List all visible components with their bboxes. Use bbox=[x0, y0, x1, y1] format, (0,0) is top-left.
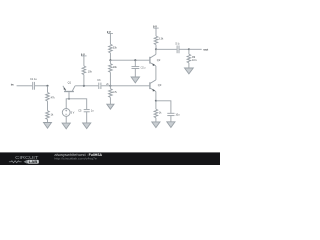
resistor R3 bbox=[82, 66, 92, 75]
wire R5 to node C bbox=[109, 72, 111, 86]
resistor R7 bbox=[154, 36, 164, 45]
wire base node left and down to V1 bbox=[66, 99, 69, 109]
transistor Q3 bbox=[150, 80, 162, 92]
wire C5 to ground bbox=[86, 112, 88, 123]
wire Q3 emitter down bbox=[155, 92, 157, 101]
wire node E down to C2 bbox=[134, 60, 136, 66]
svg-text:10u: 10u bbox=[175, 114, 180, 117]
wire node A down to R1 bbox=[47, 86, 49, 93]
wire Q2 emitter to Q3 collector bbox=[155, 66, 157, 80]
transistor Q2 bbox=[150, 49, 161, 66]
wire node D to Q2 base row bbox=[110, 59, 149, 61]
svg-text:10 k: 10 k bbox=[192, 59, 197, 62]
svg-text:9 V: 9 V bbox=[107, 30, 111, 34]
wire R1 to R2 bbox=[47, 101, 49, 111]
wire flag to R7 bbox=[155, 28, 157, 36]
ground (C4) bbox=[167, 122, 175, 128]
wire node B up to R3 bbox=[83, 75, 85, 86]
resistor R5 bbox=[109, 64, 118, 73]
svg-text:Q2: Q2 bbox=[157, 58, 161, 62]
footer bar bbox=[0, 152, 220, 165]
wire base node right and down to C5 bbox=[69, 99, 87, 109]
wire C6 to node H bbox=[180, 48, 189, 50]
wire C2 to ground bbox=[134, 69, 136, 78]
node F junction bbox=[155, 48, 157, 50]
wire R9 to ground bbox=[188, 63, 190, 68]
svg-text:Q1: Q1 bbox=[68, 80, 72, 84]
node D junction bbox=[109, 59, 111, 61]
wire R3 to flag bbox=[83, 56, 85, 66]
node out label bbox=[203, 47, 208, 51]
CircuitLab logo LAB box bbox=[24, 160, 27, 164]
ground (R8) bbox=[152, 122, 160, 128]
wire main row node C to Q3 base bbox=[110, 85, 149, 87]
wire R6 to ground bbox=[109, 97, 111, 104]
wire node D to R5 bbox=[109, 60, 111, 63]
svg-text:LAB: LAB bbox=[29, 160, 39, 164]
resistor R2 bbox=[46, 111, 54, 120]
capacitor C6 bbox=[175, 43, 180, 54]
svg-text:http://circuitlab.com/c4sq7e: http://circuitlab.com/c4sq7e bbox=[54, 156, 97, 160]
wire R8 to ground bbox=[155, 118, 157, 122]
capacitor C5 bbox=[78, 110, 94, 113]
capacitor C4 bbox=[167, 113, 180, 116]
power flag 9V (right) bbox=[153, 25, 159, 29]
ground (R6) bbox=[107, 104, 114, 109]
svg-text:4.7k: 4.7k bbox=[112, 91, 117, 94]
wire Q1 collector to C3 bbox=[75, 85, 98, 87]
svg-text:C2 1u: C2 1u bbox=[141, 67, 146, 70]
power flag 9V (center) bbox=[107, 30, 113, 34]
svg-text:C6 1u: C6 1u bbox=[175, 43, 180, 46]
svg-text:Q3: Q3 bbox=[158, 83, 162, 87]
node vb label bbox=[106, 83, 109, 86]
resistor R9 bbox=[187, 54, 197, 63]
wire V1 to ground bbox=[65, 116, 67, 123]
node A junction bbox=[46, 85, 48, 87]
wire R2 to ground bbox=[47, 119, 49, 122]
wire node F to C6 bbox=[156, 48, 177, 50]
svg-text:9 V: 9 V bbox=[81, 52, 85, 56]
capacitor C2 bbox=[132, 67, 146, 70]
node in label bbox=[11, 83, 14, 87]
power flag 9V (left) bbox=[81, 52, 87, 56]
resistor R8 bbox=[154, 109, 162, 118]
resistor R6 bbox=[109, 89, 118, 98]
wire node G to R8 bbox=[155, 101, 157, 109]
wire C4 to ground bbox=[170, 116, 172, 122]
node E junction bbox=[134, 59, 136, 61]
ground (R9) bbox=[185, 68, 194, 74]
transistor Q1 bbox=[63, 80, 75, 91]
ground (C2) bbox=[131, 77, 139, 83]
wire R4 to node D bbox=[109, 53, 111, 60]
voltage source V1 bbox=[62, 109, 74, 117]
svg-text:3.3k: 3.3k bbox=[159, 38, 164, 41]
svg-text:9 V: 9 V bbox=[153, 25, 157, 29]
ground (R2) bbox=[44, 123, 52, 129]
wire flag to R4 bbox=[109, 34, 111, 45]
svg-text:C1 1u: C1 1u bbox=[30, 78, 37, 81]
node H junction bbox=[188, 48, 190, 50]
capacitor C1 bbox=[30, 78, 37, 90]
ground (V1) bbox=[62, 123, 70, 129]
wire input to C1 bbox=[17, 85, 33, 87]
CircuitLab logo resistor squiggle bbox=[9, 161, 22, 163]
wire node H down to R9 bbox=[188, 49, 190, 54]
node B junction bbox=[83, 85, 85, 87]
svg-text:out: out bbox=[203, 47, 208, 51]
node C junction bbox=[109, 85, 111, 87]
wire node H to out bbox=[189, 48, 202, 50]
wire node G right to C4 bbox=[156, 101, 171, 113]
wire C3 to node C bbox=[101, 85, 110, 87]
wire C1 to node A bbox=[35, 85, 48, 87]
node Q1 base junction bbox=[68, 98, 70, 100]
capacitor C3 bbox=[97, 79, 101, 89]
svg-text:in: in bbox=[11, 83, 14, 87]
resistor R4 bbox=[109, 44, 118, 53]
wire Q1 base stem down bbox=[68, 92, 70, 99]
wire node C down to R6 bbox=[109, 86, 111, 89]
svg-text:5 V: 5 V bbox=[71, 111, 75, 114]
node G junction bbox=[155, 100, 157, 102]
wire R7 to node F bbox=[155, 45, 157, 50]
resistor R1 bbox=[46, 92, 56, 101]
ground (C5) bbox=[83, 123, 91, 129]
